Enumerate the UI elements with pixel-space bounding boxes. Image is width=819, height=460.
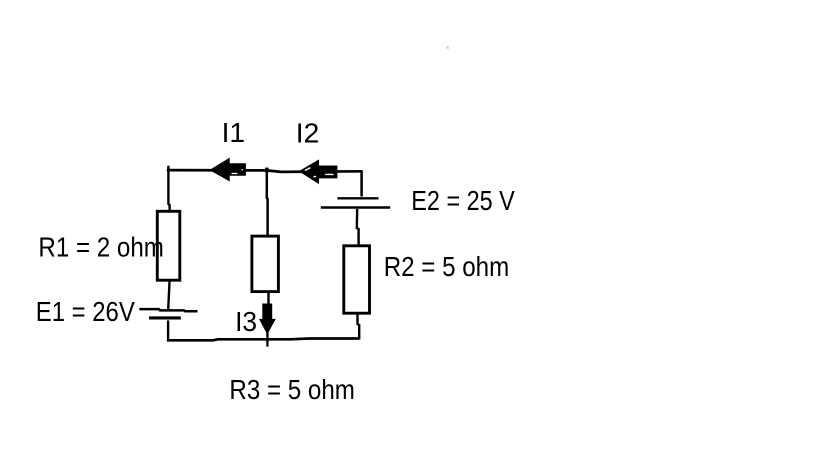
resistor R2 xyxy=(344,246,370,313)
battery E1 plate long xyxy=(139,309,197,311)
wire R2 to bottom xyxy=(358,313,360,339)
wire middle branch (junction to R3) xyxy=(266,171,269,236)
svg-text:E1 = 26V: E1 = 26V xyxy=(36,296,136,327)
wire right vertical (top wire to E2) xyxy=(360,171,363,197)
wire left vertical (top corner down to R1) xyxy=(168,166,169,212)
resistor R1 xyxy=(157,211,180,280)
svg-text:I1: I1 xyxy=(222,117,246,148)
svg-text:R3 = 5 ohm: R3 = 5 ohm xyxy=(229,374,355,405)
wire I3 tail through bottom wire xyxy=(266,330,268,347)
wire top horizontal (node between I1 and I2) xyxy=(167,170,363,172)
stray faint dot xyxy=(446,46,449,49)
arrow I1 xyxy=(210,159,245,181)
svg-text:I3: I3 xyxy=(235,306,257,337)
svg-text:R2 = 5 ohm: R2 = 5 ohm xyxy=(384,251,510,282)
wire R1 to E1 xyxy=(168,280,169,310)
wire bottom horizontal xyxy=(167,339,359,341)
node junction top-middle stub xyxy=(265,168,268,173)
svg-text:E2 = 25 V: E2 = 25 V xyxy=(411,185,515,216)
battery E2 plate short xyxy=(337,197,378,199)
battery E1 plate short xyxy=(149,316,181,319)
arrow I2 xyxy=(300,160,337,183)
svg-text:R1 = 2 ohm: R1 = 2 ohm xyxy=(38,231,163,262)
svg-text:I2: I2 xyxy=(296,118,320,149)
wire E1 to bottom xyxy=(167,320,169,340)
wire E2 to R2 xyxy=(357,209,359,246)
battery E2 plate long xyxy=(321,206,390,208)
resistor R3 xyxy=(252,236,279,292)
wire R3 to I3 arrow xyxy=(267,292,269,305)
arrow I3 xyxy=(260,304,275,333)
